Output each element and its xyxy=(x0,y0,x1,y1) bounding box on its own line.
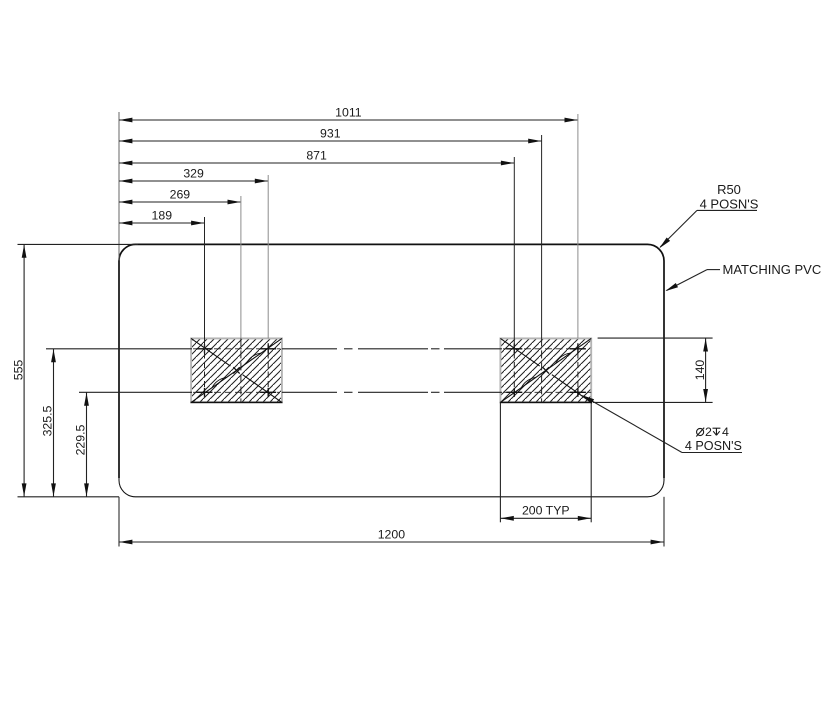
svg-text:200 TYP: 200 TYP xyxy=(522,504,570,518)
svg-text:4: 4 xyxy=(722,425,729,439)
svg-text:MATCHING PVC: MATCHING PVC xyxy=(723,262,822,277)
svg-text:2: 2 xyxy=(705,425,712,439)
svg-text:555: 555 xyxy=(11,360,25,381)
svg-text:4 POSN'S: 4 POSN'S xyxy=(700,196,759,211)
svg-text:931: 931 xyxy=(320,127,341,141)
svg-text:229.5: 229.5 xyxy=(74,424,88,455)
svg-text:1011: 1011 xyxy=(335,106,362,120)
svg-text:189: 189 xyxy=(152,209,173,223)
svg-text:269: 269 xyxy=(170,188,191,202)
svg-text:871: 871 xyxy=(306,149,327,163)
svg-text:140: 140 xyxy=(693,360,707,381)
svg-text:4 POSN'S: 4 POSN'S xyxy=(685,439,742,453)
svg-text:1200: 1200 xyxy=(378,527,406,541)
svg-text:329: 329 xyxy=(183,167,204,181)
svg-text:325.5: 325.5 xyxy=(41,405,55,436)
svg-text:R50: R50 xyxy=(717,182,741,197)
